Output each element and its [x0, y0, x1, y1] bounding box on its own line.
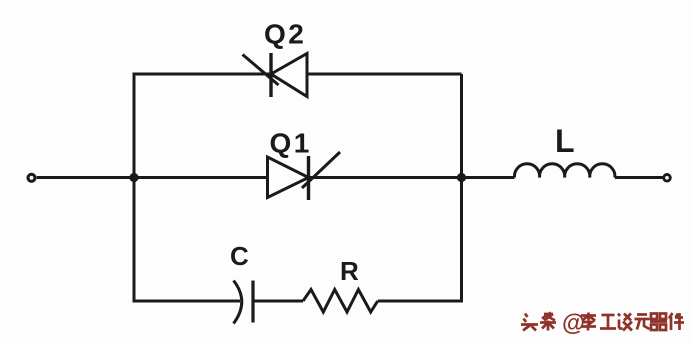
- wire capacitor to resistor: [253, 300, 303, 303]
- capacitor C: [234, 281, 254, 324]
- wire node A to Q1 anode: [134, 176, 268, 179]
- node A junction dot: [129, 173, 138, 182]
- node B junction dot: [457, 173, 466, 182]
- wire Q2 anode to right bus: [307, 73, 462, 76]
- char 件: [669, 313, 684, 330]
- thyristor Q1: [268, 152, 341, 200]
- watermark 头条 @李工谈元器件: [521, 310, 684, 336]
- inductor L: [514, 164, 615, 178]
- svg-text:Q1: Q1: [270, 128, 312, 159]
- wire left bus vertical: [134, 74, 271, 178]
- char 工: [600, 315, 616, 329]
- char 元: [635, 315, 650, 330]
- char 器: [650, 314, 667, 331]
- svg-text:R: R: [340, 256, 359, 286]
- svg-text:C: C: [230, 241, 249, 271]
- wire Q1 cathode to node B: [309, 176, 462, 179]
- resistor R: [303, 290, 378, 313]
- char 条: [540, 313, 556, 331]
- terminal left: [28, 174, 35, 181]
- wire left terminal to node A: [37, 176, 134, 179]
- char 谈: [618, 314, 632, 331]
- char 头: [521, 314, 538, 331]
- thyristor Q2: [243, 53, 308, 97]
- svg-text:L: L: [555, 123, 575, 159]
- char 李: [581, 313, 596, 331]
- terminal right: [664, 175, 671, 182]
- wire resistor to right bus: [378, 178, 462, 302]
- svg-text:@: @: [562, 310, 585, 336]
- wire right bus upper: [460, 74, 463, 178]
- wire inductor to right terminal: [615, 176, 663, 179]
- wire node B to inductor: [462, 176, 515, 179]
- svg-text:Q2: Q2: [264, 19, 306, 50]
- wire left bus lower to capacitor: [134, 178, 240, 302]
